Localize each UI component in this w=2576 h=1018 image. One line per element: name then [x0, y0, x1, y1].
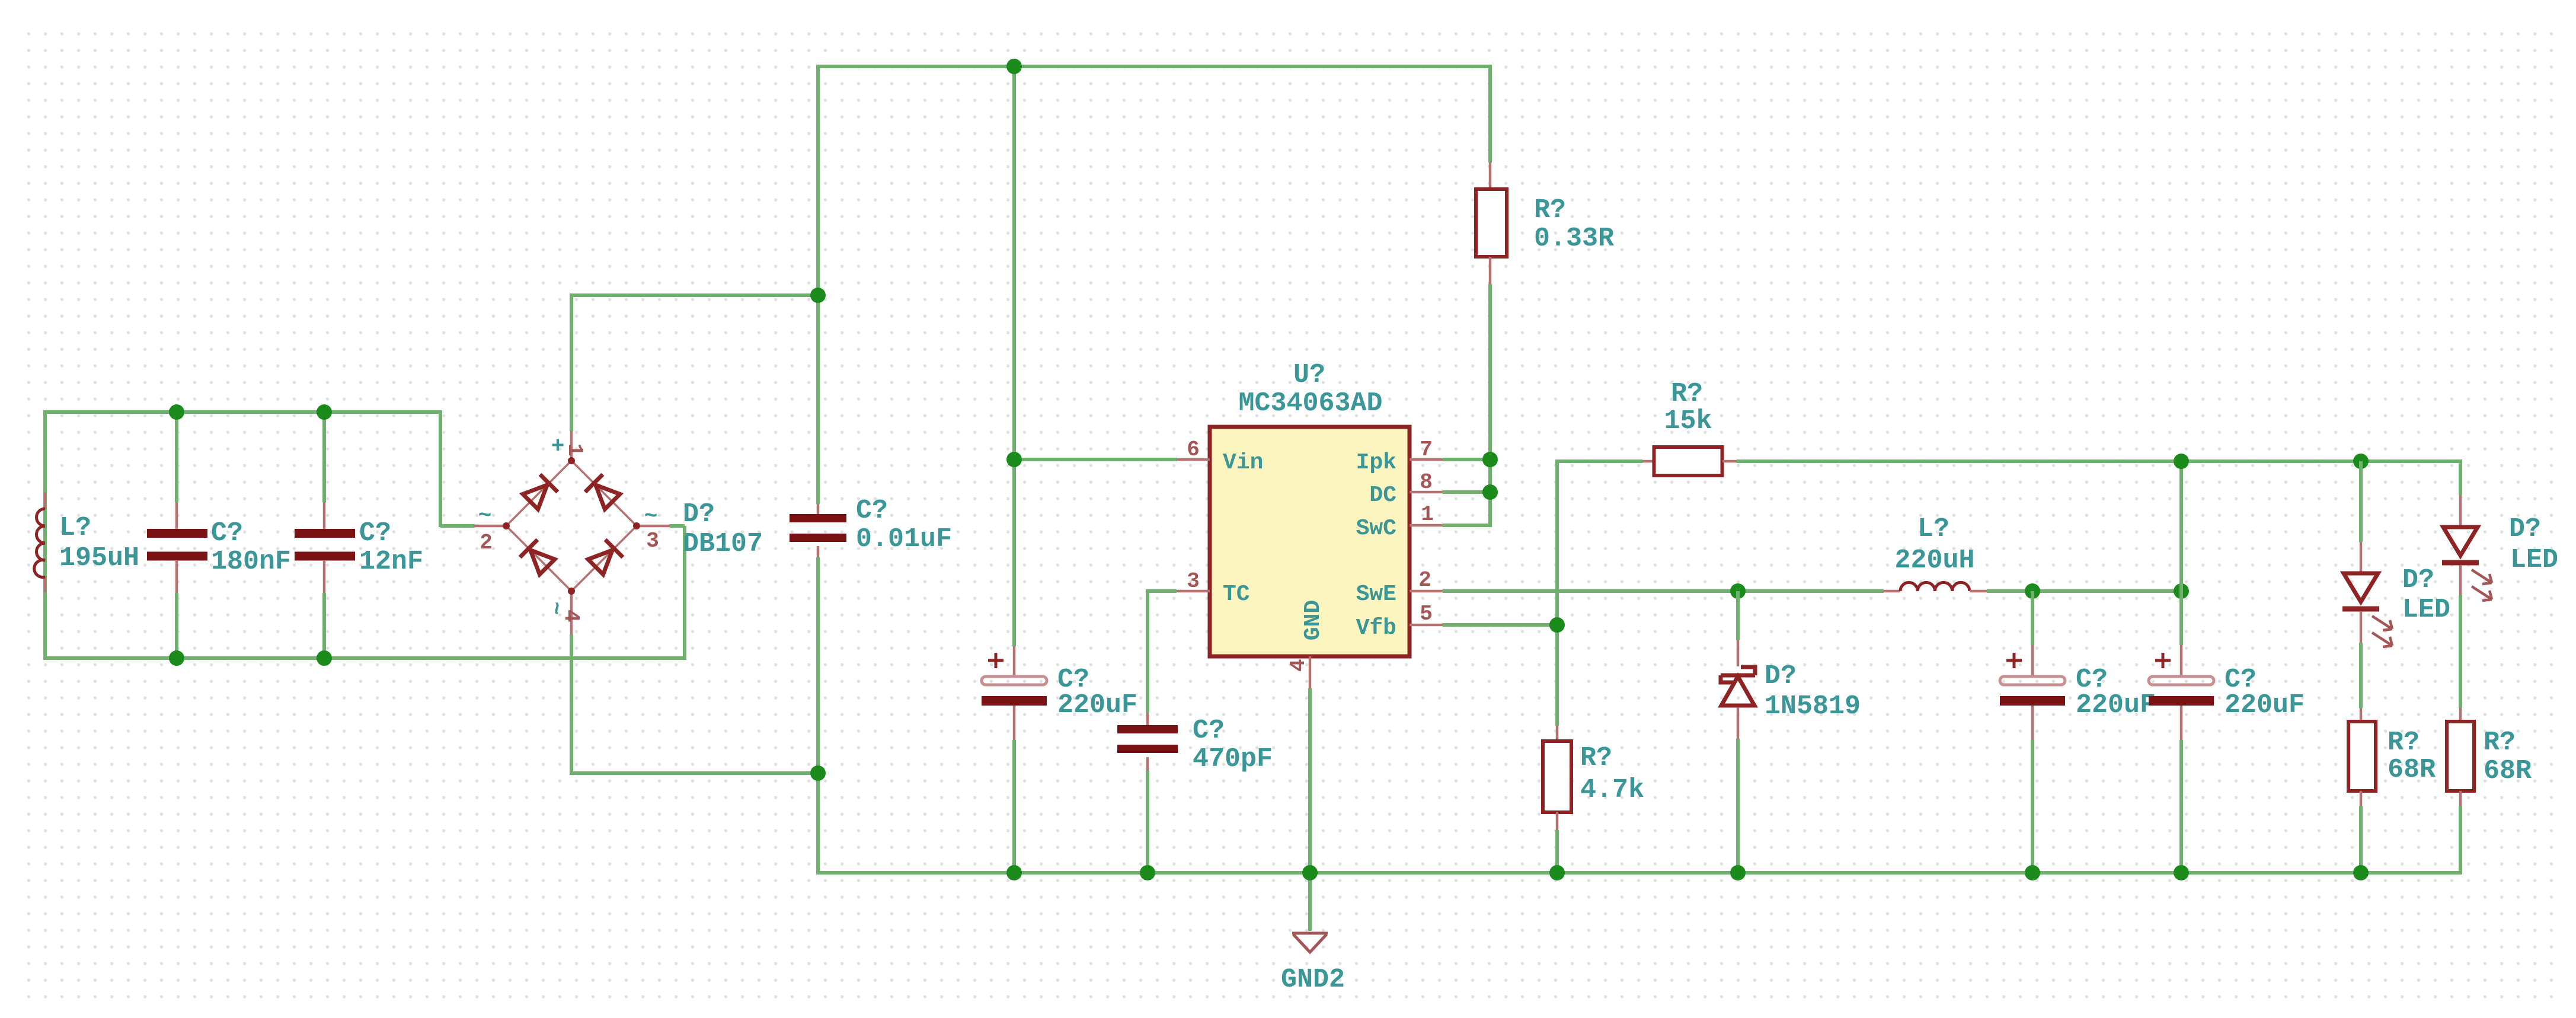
- svg-text:Vfb: Vfb: [1356, 615, 1396, 641]
- svg-text:~: ~: [478, 503, 492, 529]
- wire GND pin to ground: [1308, 688, 1312, 931]
- svg-text:R?: R?: [2388, 727, 2420, 758]
- ground GND2 symbol: [1292, 933, 1328, 952]
- svg-text:0.01uF: 0.01uF: [856, 524, 952, 554]
- wire Vfb corner to R3: [1557, 459, 1642, 463]
- node Vin junction: [1006, 452, 1022, 467]
- wire R2 branch vertical x=2514: [1488, 65, 1492, 162]
- svg-text:R?: R?: [1534, 195, 1566, 225]
- node Ipk junction: [1482, 452, 1498, 467]
- svg-text:220uF: 220uF: [2225, 690, 2305, 720]
- op-amp U1 MC34063AD body: [1210, 427, 1410, 656]
- node 1N5819 junction: [1730, 583, 1746, 599]
- wire Vin vertical x=1711: [1012, 66, 1016, 459]
- svg-text:68R: 68R: [2484, 756, 2532, 786]
- svg-text:5: 5: [1420, 602, 1433, 626]
- LED D3: [2359, 461, 2363, 542]
- svg-text:220uH: 220uH: [1894, 545, 1974, 576]
- svg-text:~: ~: [644, 504, 658, 529]
- svg-text:SwC: SwC: [1356, 516, 1396, 541]
- wire SwE net: [1443, 589, 1884, 593]
- svg-text:0.33R: 0.33R: [1534, 224, 1614, 254]
- svg-text:+: +: [551, 434, 565, 459]
- pin 8 DC: [1410, 491, 1443, 494]
- node bridge-bottom / C3 junction: [810, 765, 826, 781]
- wire bottom rail: [816, 871, 2462, 875]
- svg-text:L?: L?: [59, 513, 91, 543]
- node L2 out junction: [2025, 583, 2040, 599]
- wire Vin: [1014, 458, 1177, 461]
- capacitor C3 0.01uF: [817, 504, 820, 514]
- svg-text:D?: D?: [2509, 514, 2541, 544]
- resistor R2 0.33R: [1476, 189, 1507, 257]
- svg-text:470pF: 470pF: [1193, 744, 1273, 774]
- pin 5 Vfb: [1410, 624, 1443, 627]
- resistor R4 4.7k: [1556, 726, 1559, 743]
- svg-text:Ipk: Ipk: [1356, 450, 1396, 476]
- capacitor C4 470pF: [1146, 713, 1149, 725]
- svg-text:12nF: 12nF: [359, 547, 423, 577]
- node top rail junction: [1006, 59, 1022, 74]
- pin 7 Ipk: [1410, 458, 1443, 461]
- capacitor C7 220uF electrolytic: [2179, 461, 2183, 645]
- svg-text:1: 1: [1421, 502, 1434, 526]
- LED D4: [2459, 495, 2462, 527]
- svg-text:3: 3: [646, 529, 659, 553]
- node output rail junctions: [2174, 454, 2189, 469]
- svg-text:C?: C?: [211, 518, 243, 548]
- svg-text:8: 8: [1420, 470, 1433, 494]
- svg-text:DB107: DB107: [683, 529, 763, 559]
- pin 2 SwE: [1410, 590, 1443, 593]
- svg-text:R?: R?: [2484, 727, 2516, 758]
- svg-text:D?: D?: [683, 499, 715, 529]
- svg-text:4: 4: [1286, 659, 1311, 672]
- node DC junction: [1482, 484, 1498, 500]
- svg-text:2: 2: [1418, 568, 1431, 592]
- capacitor C2 12nF: [322, 412, 326, 502]
- svg-text:C?: C?: [856, 496, 888, 526]
- diode bridge D1 DB107: [506, 461, 637, 591]
- diode D2 1N5819 schottky: [1736, 591, 1740, 640]
- svg-text:4.7k: 4.7k: [1580, 775, 1644, 805]
- capacitor C1 180nF: [175, 412, 178, 502]
- svg-text:6: 6: [1187, 438, 1200, 462]
- svg-text:2: 2: [480, 531, 493, 555]
- svg-text:220uF: 220uF: [2076, 690, 2156, 720]
- svg-text:MC34063AD: MC34063AD: [1238, 388, 1382, 419]
- pin 6 Vin: [1177, 458, 1210, 461]
- svg-text:LED: LED: [2510, 545, 2558, 575]
- wire main left vertical x=1380: [816, 65, 820, 295]
- wire top rail: [816, 65, 1492, 68]
- node bottom rail junctions: [1006, 865, 1022, 880]
- svg-text:GND: GND: [1300, 600, 1326, 640]
- wire TC to C4: [1146, 589, 1177, 593]
- wire left input loop: [43, 412, 47, 658]
- svg-text:D?: D?: [2402, 565, 2434, 595]
- wire bridge bottom to junction: [570, 634, 573, 775]
- svg-text:C?: C?: [1193, 716, 1225, 746]
- resistor R3 15k: [1642, 460, 1655, 463]
- resistor R5 68R: [2360, 708, 2363, 723]
- svg-text:DC: DC: [1369, 483, 1396, 508]
- node Vfb junction: [1549, 617, 1565, 633]
- svg-text:1: 1: [562, 443, 587, 457]
- svg-text:220uF: 220uF: [1057, 690, 1137, 720]
- svg-text:L?: L?: [1917, 514, 1949, 544]
- svg-text:R?: R?: [1580, 743, 1612, 773]
- svg-text:SwE: SwE: [1356, 582, 1396, 607]
- svg-text:U?: U?: [1293, 360, 1325, 390]
- svg-text:195uH: 195uH: [59, 543, 139, 573]
- svg-text:15k: 15k: [1664, 406, 1712, 436]
- svg-text:C?: C?: [359, 518, 391, 548]
- svg-text:180nF: 180nF: [211, 547, 291, 577]
- svg-text:1N5819: 1N5819: [1765, 691, 1861, 722]
- wire Vfb net: [1443, 623, 1559, 627]
- svg-text:Vin: Vin: [1223, 450, 1263, 476]
- pin 3 TC: [1177, 590, 1210, 593]
- wire output top rail: [1737, 459, 2462, 463]
- svg-text:3: 3: [1187, 569, 1200, 593]
- node bridge-top / C3 junction: [810, 288, 826, 303]
- node top-left junctions: [169, 404, 184, 420]
- svg-text:R?: R?: [1671, 379, 1703, 409]
- svg-text:GND2: GND2: [1281, 965, 1345, 995]
- svg-text:7: 7: [1420, 438, 1433, 462]
- svg-text:4: 4: [559, 609, 583, 623]
- wire bridge top to rail junction: [570, 295, 573, 431]
- svg-text:D?: D?: [1765, 661, 1797, 691]
- resistor R6 68R: [2459, 708, 2462, 723]
- svg-text:LED: LED: [2402, 595, 2450, 625]
- inductor L2 220uH: [1884, 590, 1900, 593]
- inductor L1 195uH: [44, 493, 47, 509]
- node bottom-left junctions: [169, 650, 184, 666]
- capacitor C6 220uF electrolytic: [2031, 591, 2034, 645]
- svg-text:TC: TC: [1223, 582, 1250, 607]
- svg-text:68R: 68R: [2388, 755, 2436, 785]
- bridge pin stubs: [570, 431, 573, 461]
- capacitor C5 220uF electrolytic: [1013, 646, 1016, 676]
- pin 1 SwC: [1410, 524, 1443, 527]
